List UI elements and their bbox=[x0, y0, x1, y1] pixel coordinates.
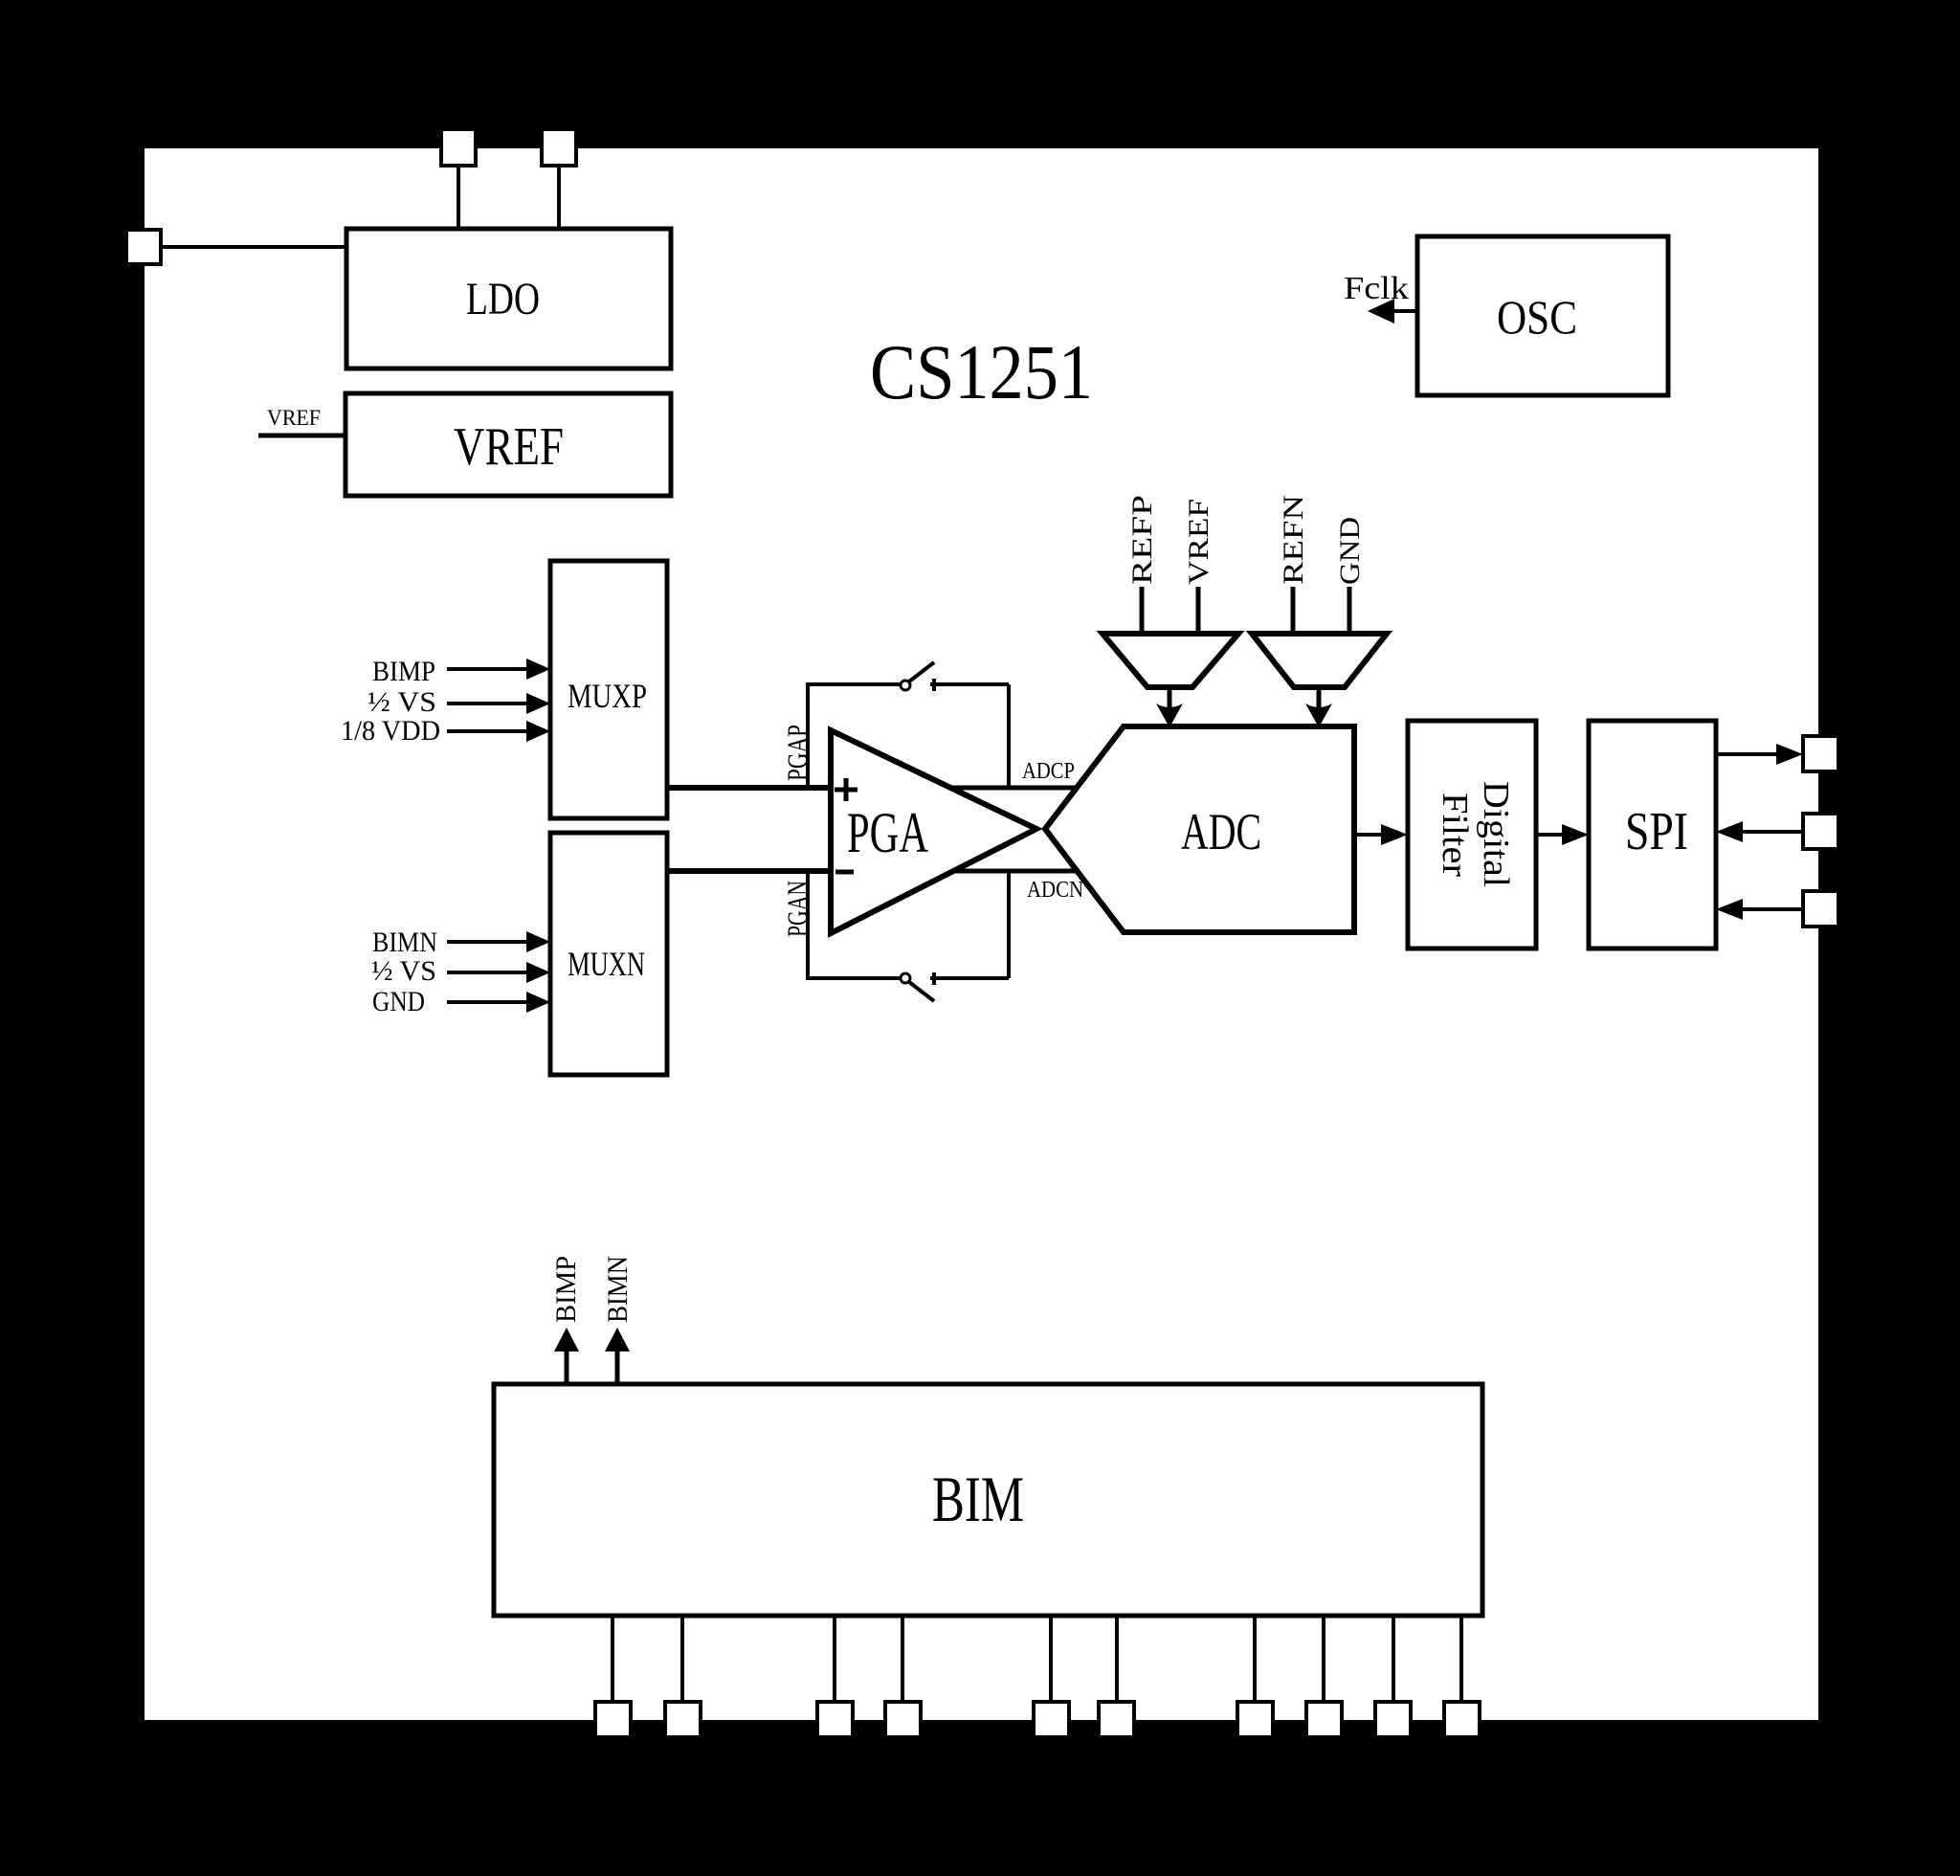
svg-text:REFN: REFN bbox=[1278, 495, 1309, 585]
block Digital Filter bbox=[1408, 721, 1536, 949]
wire feedback top right vertical bbox=[1007, 684, 1011, 788]
block ADC bbox=[1045, 726, 1354, 932]
wire BIMN to MUXN arrow bbox=[447, 940, 528, 944]
wire ADC to Digital Filter arrow bbox=[1354, 833, 1385, 837]
PGA plus input sign bbox=[835, 778, 857, 801]
block VREF bbox=[345, 393, 671, 496]
pin square SPI 2 bbox=[1803, 814, 1838, 849]
wire SPI input arrow from pin 2 bbox=[1739, 830, 1803, 834]
op-amp PGA bbox=[831, 730, 1036, 933]
svg-text:VREF: VREF bbox=[454, 417, 564, 477]
wire top pin 2 to LDO bbox=[557, 166, 561, 231]
svg-text:BIMN: BIMN bbox=[372, 927, 437, 958]
svg-text:MUXP: MUXP bbox=[568, 677, 647, 715]
wire feedback bottom right vertical bbox=[1007, 871, 1011, 978]
wire VREF pin line bbox=[1196, 587, 1201, 636]
svg-text:½ VS: ½ VS bbox=[371, 955, 436, 987]
wire BIM bottom pin 8 bbox=[1322, 1616, 1325, 1706]
pin square BIM 9 bbox=[1375, 1702, 1411, 1737]
svg-text:GND: GND bbox=[372, 986, 425, 1017]
wire top pin 1 to LDO bbox=[457, 166, 460, 231]
wire BIM bottom pin 1 bbox=[611, 1616, 614, 1706]
wire 1/8 VDD to MUXP arrow bbox=[447, 729, 528, 733]
wire ADCN bbox=[953, 869, 1077, 874]
wire feedback top rail right bbox=[930, 682, 1009, 686]
svg-text:ADCN: ADCN bbox=[1027, 878, 1083, 903]
switch S1 lever bbox=[909, 662, 934, 681]
wire BIM bottom pin 10 bbox=[1459, 1616, 1463, 1706]
wire half VS to MUXN arrow bbox=[447, 971, 528, 974]
wire GND pin line bbox=[1347, 587, 1352, 636]
svg-text:BIMN: BIMN bbox=[602, 1256, 634, 1323]
wire Digital Filter to SPI arrow bbox=[1536, 833, 1567, 837]
svg-text:LDO: LDO bbox=[466, 274, 540, 324]
block OSC bbox=[1417, 236, 1668, 395]
switch S2 fixed contact tick bbox=[932, 972, 936, 985]
block MUXP bbox=[550, 561, 667, 818]
wire funnel 2 to ADC arrow bbox=[1317, 687, 1322, 710]
svg-text:SPI: SPI bbox=[1625, 802, 1688, 861]
wire ADCP bbox=[950, 786, 1078, 791]
svg-text:PGA: PGA bbox=[847, 801, 928, 864]
wire MUXN output to PGA - bbox=[667, 868, 831, 874]
wire VREF stub bbox=[258, 434, 345, 438]
wire REFN pin line bbox=[1291, 587, 1296, 636]
pin square BIM 3 bbox=[817, 1702, 853, 1737]
wire BIM output BIMP arrow bbox=[565, 1348, 569, 1384]
svg-text:1/8 VDD: 1/8 VDD bbox=[341, 715, 440, 747]
wire BIM output BIMN arrow bbox=[615, 1348, 620, 1384]
svg-text:MUXN: MUXN bbox=[568, 945, 645, 983]
switch S1 fixed contact tick bbox=[932, 679, 936, 691]
reference mux funnel 1 bbox=[1102, 634, 1238, 687]
wire feedback bottom rail left bbox=[806, 976, 901, 980]
wire BIM bottom pin 7 bbox=[1253, 1616, 1257, 1706]
wire left pin to LDO bbox=[161, 245, 346, 249]
wire MUXP output to PGA + bbox=[667, 785, 831, 791]
wire REFP pin line bbox=[1140, 587, 1145, 636]
switch S1 contact circle bbox=[901, 681, 910, 690]
svg-text:ADCP: ADCP bbox=[1022, 759, 1075, 784]
svg-text:OSC: OSC bbox=[1497, 290, 1577, 344]
svg-text:GND: GND bbox=[1334, 517, 1366, 585]
pin square BIM 10 bbox=[1444, 1702, 1480, 1737]
svg-text:BIMP: BIMP bbox=[550, 1256, 582, 1323]
svg-text:VREF: VREF bbox=[1183, 499, 1214, 585]
wire BIMP to MUXP arrow bbox=[447, 667, 528, 671]
pin square BIM 4 bbox=[885, 1702, 921, 1737]
pin square BIM 6 bbox=[1099, 1702, 1134, 1737]
switch S2 contact circle bbox=[901, 973, 910, 983]
wire Fclk output arrow bbox=[1388, 309, 1417, 313]
svg-text:VREF: VREF bbox=[267, 406, 321, 430]
svg-text:½ VS: ½ VS bbox=[367, 686, 436, 718]
wire feedback top rail left bbox=[806, 682, 901, 686]
wire feedback top left vertical bbox=[806, 684, 810, 788]
wire BIM bottom pin 9 bbox=[1392, 1616, 1395, 1706]
block SPI bbox=[1589, 721, 1716, 949]
pin square left bbox=[126, 230, 161, 264]
wire feedback bottom rail right bbox=[930, 976, 1009, 980]
wire GND to MUXN arrow bbox=[447, 1000, 528, 1004]
wire BIM bottom pin 2 bbox=[680, 1616, 684, 1706]
pin square BIM 2 bbox=[665, 1702, 701, 1737]
wire half VS to MUXP arrow bbox=[447, 702, 528, 705]
wire SPI input arrow from pin 3 bbox=[1739, 907, 1803, 911]
switch S2 lever bbox=[909, 982, 934, 1001]
pin square BIM 7 bbox=[1237, 1702, 1273, 1737]
svg-text:CS1251: CS1251 bbox=[870, 328, 1093, 415]
wire BIM bottom pin 4 bbox=[901, 1616, 904, 1706]
pin square BIM 1 bbox=[595, 1702, 631, 1737]
svg-text:Digital: Digital bbox=[1476, 781, 1516, 887]
wire feedback bottom left vertical bbox=[806, 871, 810, 978]
wire BIM bottom pin 6 bbox=[1115, 1616, 1119, 1706]
svg-text:BIMP: BIMP bbox=[372, 656, 435, 687]
block MUXN bbox=[550, 833, 667, 1075]
pin square BIM 8 bbox=[1306, 1702, 1342, 1737]
svg-text:BIM: BIM bbox=[932, 1463, 1024, 1535]
svg-text:Filter: Filter bbox=[1435, 793, 1475, 877]
block LDO bbox=[346, 229, 671, 368]
wire funnel 1 to ADC arrow bbox=[1168, 687, 1172, 710]
reference mux funnel 2 bbox=[1252, 634, 1387, 687]
pin square VDD top 2 bbox=[542, 129, 576, 166]
pin square SPI 3 bbox=[1803, 891, 1838, 927]
wire BIM bottom pin 5 bbox=[1049, 1616, 1053, 1706]
wire BIM bottom pin 3 bbox=[833, 1616, 836, 1706]
pin square SPI 1 bbox=[1803, 736, 1838, 771]
pin square VDD top 1 bbox=[441, 129, 476, 166]
block BIM bbox=[494, 1384, 1482, 1616]
svg-text:REFP: REFP bbox=[1126, 495, 1158, 585]
wire SPI output arrow to pin bbox=[1716, 752, 1780, 756]
chip body bbox=[145, 148, 1818, 1720]
svg-text:Fclk: Fclk bbox=[1344, 271, 1409, 306]
PGA minus input sign bbox=[835, 870, 854, 875]
pin square BIM 5 bbox=[1034, 1702, 1069, 1737]
svg-text:ADC: ADC bbox=[1181, 803, 1261, 860]
